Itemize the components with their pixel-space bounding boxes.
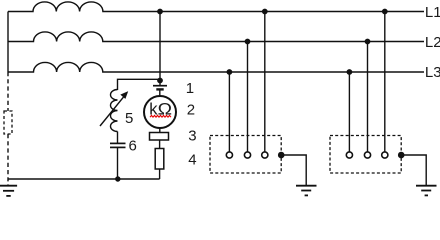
svg-text:L1: L1 bbox=[425, 4, 440, 21]
svg-text:L3: L3 bbox=[425, 64, 440, 81]
svg-text:L2: L2 bbox=[425, 34, 440, 51]
svg-text:5: 5 bbox=[125, 110, 133, 127]
svg-text:3: 3 bbox=[188, 128, 196, 145]
svg-text:4: 4 bbox=[188, 152, 196, 169]
svg-text:2: 2 bbox=[187, 101, 195, 118]
svg-text:6: 6 bbox=[129, 138, 137, 155]
svg-text:1: 1 bbox=[186, 80, 194, 97]
